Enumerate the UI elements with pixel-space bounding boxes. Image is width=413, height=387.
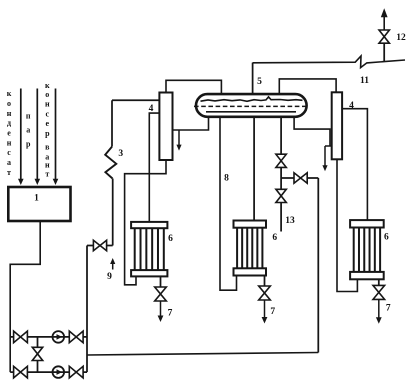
- svg-text:6: 6: [168, 234, 173, 244]
- svg-text:в: в: [45, 143, 50, 152]
- svg-text:н: н: [7, 109, 12, 118]
- svg-text:а: а: [26, 126, 30, 135]
- svg-text:с: с: [7, 148, 11, 157]
- svg-text:3: 3: [118, 149, 123, 159]
- svg-text:о: о: [7, 99, 11, 108]
- svg-text:е: е: [46, 119, 50, 128]
- svg-text:о: о: [45, 90, 49, 99]
- svg-text:п: п: [26, 111, 31, 120]
- svg-text:н: н: [45, 100, 50, 109]
- svg-text:8: 8: [224, 174, 229, 184]
- svg-text:6: 6: [384, 233, 389, 243]
- svg-text:р: р: [45, 129, 50, 138]
- svg-text:12: 12: [396, 33, 406, 43]
- svg-text:7: 7: [386, 304, 391, 314]
- svg-text:т: т: [7, 168, 11, 177]
- svg-text:11: 11: [360, 76, 369, 86]
- svg-text:1: 1: [34, 194, 39, 204]
- svg-text:а: а: [7, 158, 11, 167]
- svg-text:5: 5: [257, 77, 262, 87]
- svg-text:7: 7: [168, 309, 173, 319]
- svg-text:д: д: [7, 119, 11, 128]
- svg-text:р: р: [26, 140, 31, 149]
- svg-text:н: н: [45, 160, 50, 169]
- svg-text:е: е: [7, 129, 11, 138]
- svg-text:к: к: [7, 89, 12, 98]
- svg-text:к: к: [45, 81, 50, 90]
- svg-text:с: с: [46, 109, 50, 118]
- svg-text:7: 7: [270, 307, 275, 317]
- svg-text:6: 6: [272, 233, 277, 243]
- svg-text:9: 9: [107, 272, 112, 282]
- svg-text:т: т: [45, 169, 49, 178]
- svg-text:н: н: [7, 138, 12, 147]
- svg-text:13: 13: [285, 216, 295, 226]
